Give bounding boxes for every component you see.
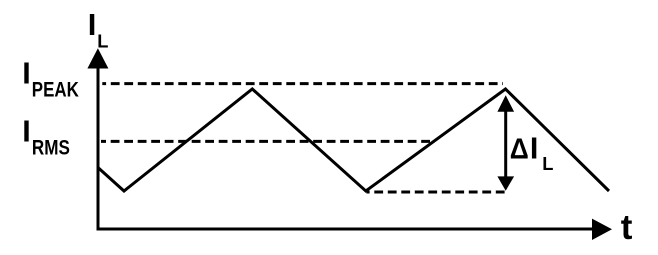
svg-text:t: t (621, 208, 633, 247)
svg-text:RMS: RMS (32, 136, 70, 159)
svg-text:I: I (22, 57, 30, 91)
svg-text:L: L (97, 30, 108, 51)
svg-text:Δ: Δ (510, 133, 529, 165)
svg-text:I: I (22, 115, 30, 149)
svg-text:L: L (542, 153, 553, 174)
svg-text:PEAK: PEAK (32, 77, 79, 101)
svg-text:I: I (530, 131, 538, 165)
svg-text:I: I (88, 7, 97, 42)
